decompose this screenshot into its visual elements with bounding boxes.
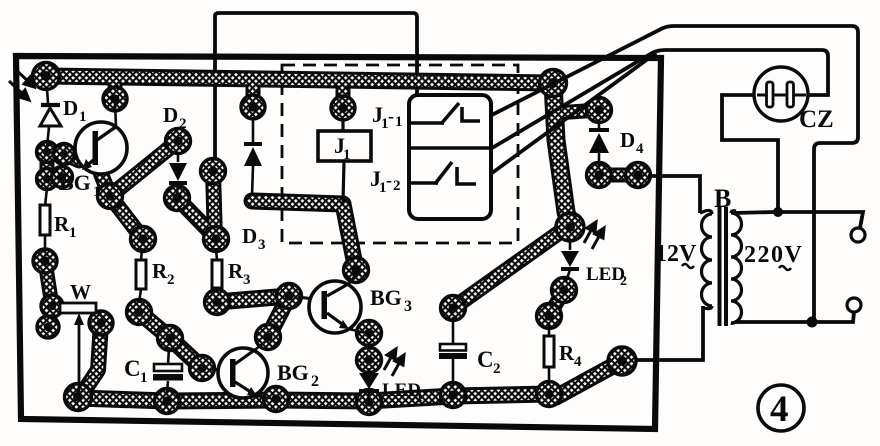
transistor BG3 [298, 274, 366, 333]
svg-text:2: 2 [167, 272, 175, 288]
wire J1-2 out [477, 53, 656, 184]
svg-text:1: 1 [140, 370, 148, 386]
terminal plug lower [847, 298, 861, 312]
capacitor C1 [168, 347, 169, 365]
svg-text:3: 3 [243, 272, 251, 288]
svg-text:3: 3 [258, 237, 266, 253]
svg-text:4: 4 [636, 141, 644, 157]
trace neck pad J1 top [336, 90, 351, 108]
svg-text:R: R [54, 212, 70, 236]
svg-text:BG: BG [59, 170, 91, 195]
trace middle relay coil [252, 201, 356, 270]
resistor R4 [548, 325, 551, 337]
wire CZ left zigzag [722, 95, 778, 212]
pad R1 top [37, 169, 58, 190]
pad D4 cathode [587, 98, 612, 123]
svg-text:BG: BG [277, 360, 309, 385]
relay dashed box [282, 65, 518, 243]
pad J1 coil top [331, 96, 355, 120]
resistor R3 [216, 248, 217, 261]
svg-text:D: D [620, 128, 635, 152]
photodiode D1 [40, 89, 61, 147]
svg-text:4: 4 [770, 389, 789, 430]
LED1 [359, 368, 379, 398]
svg-text:2: 2 [393, 178, 401, 194]
trace Y cluster BG1 base [101, 141, 178, 239]
wire 220V bottom [746, 312, 854, 322]
transistor BG1 [75, 103, 127, 174]
svg-text:2: 2 [179, 116, 187, 132]
pad ground corner [65, 384, 92, 411]
pad VCC top-left [33, 63, 60, 90]
trace R3 structure [217, 296, 289, 337]
PCB board outline [16, 56, 661, 429]
wire 220V top to plug [778, 212, 863, 228]
trace branch D4 top [556, 110, 599, 113]
wire relay contact diagonals [477, 26, 863, 360]
LED1 emission arrows [384, 349, 404, 376]
relay switch box [409, 95, 491, 219]
trace right vertical [553, 83, 570, 227]
terminal plug upper [851, 228, 865, 242]
junction CZ left / 220V top [773, 207, 783, 217]
pad BG2 collector [256, 325, 281, 350]
svg-text:B: B [714, 184, 731, 213]
svg-text:2: 2 [311, 373, 319, 390]
transformer 220V winding [731, 211, 742, 324]
diode D2 [169, 152, 187, 194]
pad VCC top-right [540, 70, 567, 97]
pad 12V feed [626, 163, 651, 188]
trace C2 diagonal [453, 232, 560, 308]
svg-text:D: D [163, 103, 178, 127]
pad BG2 base [190, 356, 215, 381]
relay coil J1 [341, 119, 344, 131]
svg-text:3: 3 [404, 298, 412, 315]
pad jumper wire [201, 159, 226, 184]
trace D4 bottom bar [599, 168, 638, 183]
capacitor C2 [452, 317, 455, 345]
pad BG1 emitter a [37, 142, 58, 163]
pad R3 bottom [205, 290, 230, 315]
pad LED1 anode [357, 348, 382, 373]
solder pads [33, 63, 651, 415]
light arrows into D1 [9, 68, 34, 100]
wire top jumper loop [215, 13, 417, 170]
pad D4 anode [587, 163, 612, 188]
pad W left [41, 295, 63, 317]
svg-text:CZ: CZ [799, 106, 834, 133]
svg-text:R: R [152, 259, 168, 283]
pad BG3 collector [344, 258, 369, 283]
pad BG1 base [98, 184, 123, 209]
pad R2 bottom [127, 300, 152, 325]
pad R3 top [204, 227, 229, 252]
pad LED1 bottom [357, 390, 382, 415]
svg-text:D: D [242, 224, 257, 248]
pad ground end [608, 347, 636, 375]
trace K cluster D2 cathode [177, 171, 215, 240]
pad LED2 anode [556, 213, 584, 241]
svg-text:-: - [386, 170, 392, 190]
pad cluster d [52, 167, 73, 188]
pad BG1 collector [103, 87, 127, 111]
transistor BG2 [210, 341, 270, 398]
potentiometer W [60, 303, 96, 313]
pad BG3 emitter [357, 321, 382, 346]
pad C2 top [441, 296, 466, 321]
pad W right [89, 311, 113, 335]
svg-text:1: 1 [343, 147, 351, 163]
svg-text:R: R [559, 341, 575, 365]
pad R4 bottom [537, 382, 562, 407]
trace BG1 emitter cluster [47, 152, 79, 179]
LED2 emission arrows [584, 222, 604, 249]
svg-text:12V: 12V [655, 241, 697, 267]
wire J1-2 common to CZ [492, 50, 828, 148]
pad C1 bottom [155, 389, 180, 414]
trace neck pad BG1 collector [108, 85, 123, 99]
junction 220V bottom [807, 317, 818, 328]
pad D2 anode [166, 129, 191, 154]
trace bottom ground rail [78, 361, 622, 401]
resistor R1 [45, 188, 47, 206]
wire 220V winding bottom lead [735, 320, 746, 324]
pad LED2 cathode [552, 278, 577, 303]
svg-text:C: C [477, 347, 494, 372]
wire 12V top [648, 176, 700, 213]
pad BG2 emitter [264, 387, 289, 412]
svg-text:2: 2 [620, 274, 627, 289]
trace LED2 to R4 neck [549, 290, 564, 316]
pad R2 top [131, 227, 156, 252]
svg-text:1: 1 [93, 184, 101, 200]
copper traces: hatched fill [45, 76, 638, 401]
trace top VCC rail [46, 76, 553, 83]
svg-text:R: R [228, 259, 244, 283]
transformer B core [718, 207, 729, 326]
svg-text:2: 2 [493, 361, 501, 377]
trace neck pad D3 top [246, 88, 261, 107]
svg-text:W: W [70, 280, 91, 304]
pad BG1 emitter b [54, 144, 75, 165]
wire 220V winding top lead [733, 212, 775, 213]
pad W left2 [37, 316, 59, 338]
transformer 12V winding [700, 210, 712, 308]
switch J1-1 [409, 103, 480, 124]
svg-text:1: 1 [79, 109, 87, 125]
wire J1-1 to mains [480, 26, 858, 322]
diode D3 [244, 117, 262, 196]
pad C1 top [158, 326, 183, 351]
svg-text:1: 1 [69, 225, 77, 241]
pad D2 cathode [165, 186, 190, 211]
pad R1 bottom [33, 249, 57, 273]
trace R1 to W sausage [45, 261, 52, 327]
svg-text:BG: BG [370, 285, 402, 310]
diode D4 [589, 120, 609, 166]
svg-text:-: - [388, 106, 394, 126]
socket CZ [754, 67, 808, 121]
pad BG3 base [277, 284, 302, 309]
svg-text:D: D [63, 96, 78, 120]
svg-text:220V: 220V [744, 242, 803, 268]
switch J1-2 [409, 148, 492, 184]
trace W vertical [80, 323, 101, 397]
pad C2 bottom [441, 383, 466, 408]
figure number 4 [758, 385, 804, 431]
pad R4 top [537, 304, 562, 329]
LED2 [561, 239, 579, 281]
pad holes [40, 71, 642, 407]
trace R2 diagonal chain [139, 312, 202, 368]
copper traces: black outlines [45, 76, 638, 401]
resistor R2 [141, 248, 142, 261]
svg-text:1: 1 [416, 390, 423, 405]
svg-text:4: 4 [574, 354, 582, 370]
svg-text:C: C [124, 356, 141, 381]
wire 12V bottom [636, 306, 703, 360]
pad D3 anode top [241, 95, 265, 119]
svg-text:1: 1 [395, 114, 403, 130]
